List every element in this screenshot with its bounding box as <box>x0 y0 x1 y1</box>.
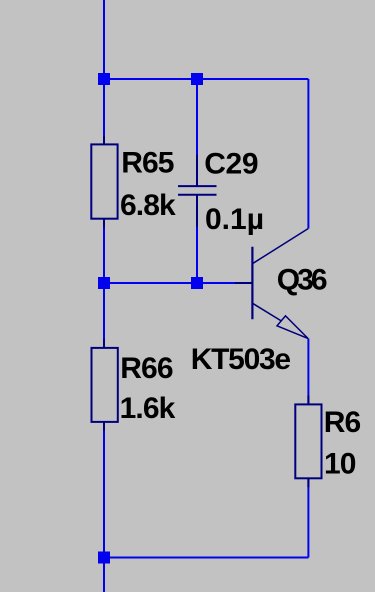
svg-text:1.6k: 1.6k <box>120 392 176 425</box>
junction mid-left (104,283) <box>98 277 110 289</box>
wire left vertical rail <box>103 0 105 592</box>
svg-text:Q36: Q36 <box>277 264 327 297</box>
wire bottom horizontal (104,557.5)-(308,557.5) <box>104 557 308 559</box>
junction mid-cap (197,283) <box>191 277 203 289</box>
svg-text:6.8k: 6.8k <box>120 189 176 222</box>
capacitor C29 <box>178 155 217 227</box>
wire base horizontal (104,283)-(252,283) <box>104 282 252 284</box>
svg-text:R65: R65 <box>121 146 174 179</box>
junction bottom-left (104,557.5) <box>98 552 110 564</box>
wire emitter vertical (308,338.6)-(308,404) <box>307 339 309 405</box>
junction top-cap (197,79) <box>191 73 203 85</box>
transistor Q36 <box>235 229 308 339</box>
resistor R66 <box>92 339 118 431</box>
wire below R6 vertical (308,478)-(308,557.5) <box>307 478 309 557</box>
svg-text:R66: R66 <box>120 352 173 385</box>
resistor R65 <box>91 136 117 228</box>
svg-text:KT503e: KT503e <box>191 343 291 376</box>
resistor R6 <box>295 396 321 488</box>
wire collector vertical (308,79)-(308,228.5) <box>307 79 309 229</box>
svg-text:R6: R6 <box>324 406 361 439</box>
svg-text:0.1µ: 0.1µ <box>205 203 264 236</box>
junction top-left (104,79) <box>98 73 110 85</box>
wire capacitor branch lower vertical (197,195)-(197,283) <box>196 195 198 283</box>
svg-text:10: 10 <box>324 448 356 481</box>
wire capacitor branch upper vertical (197,79)-(197,186) <box>196 79 198 186</box>
svg-text:C29: C29 <box>204 147 258 180</box>
wire top horizontal (104,79)-(308,79) <box>104 78 308 80</box>
